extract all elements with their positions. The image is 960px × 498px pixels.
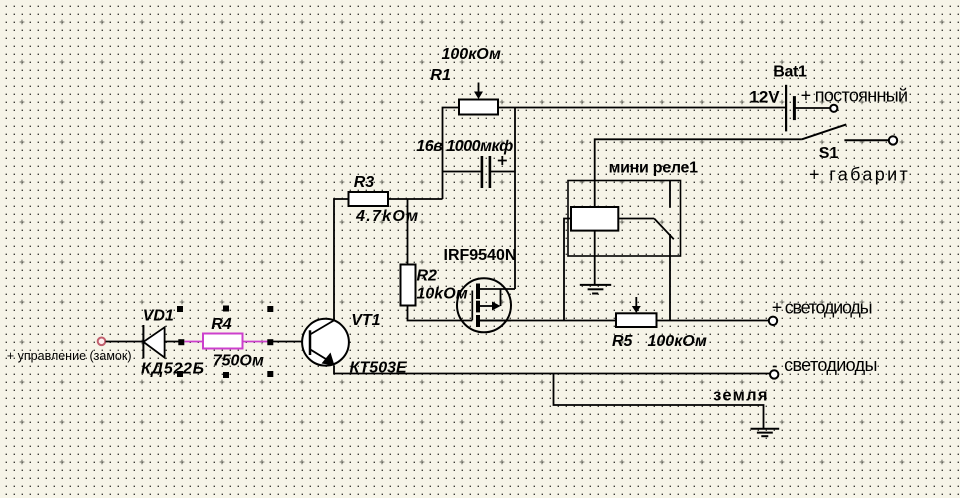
wire R2 bottom to mosfet gate <box>408 306 473 321</box>
wire base from R4 to VT1 <box>273 341 303 343</box>
wire drain vertical from rail to mosfet <box>514 108 516 290</box>
wire diode to handle <box>165 341 181 343</box>
svg-text:+ управление (замок): + управление (замок) <box>7 349 132 363</box>
svg-text:12V: 12V <box>749 88 780 107</box>
wire ground branch <box>554 374 764 429</box>
svg-text:+ светодиоды: + светодиоды <box>772 297 873 317</box>
minus dash <box>773 366 777 368</box>
svg-text:VT1: VT1 <box>351 312 380 329</box>
svg-text:16в 1000мкф: 16в 1000мкф <box>416 138 513 155</box>
resistor R2 <box>401 265 416 306</box>
relay switch contact <box>618 181 674 321</box>
wire terminal to diode <box>106 341 144 343</box>
transistor VT1 <box>302 319 349 366</box>
svg-text:100кОм: 100кОм <box>442 46 501 63</box>
resistor R1 <box>459 83 498 115</box>
terminal plus LEDs <box>769 317 777 325</box>
wire coil left down to source wire <box>564 219 571 321</box>
terminal input control <box>98 338 106 346</box>
svg-text:Bat1: Bat1 <box>773 64 807 81</box>
diode VD1 <box>143 325 164 359</box>
ground earth <box>751 429 780 436</box>
ground relay <box>580 285 611 294</box>
resistor R5 <box>616 297 657 327</box>
switch S1 <box>802 124 889 140</box>
svg-text:+ габарит: + габарит <box>809 165 908 185</box>
relay box <box>568 181 681 257</box>
terminal S1 <box>889 136 897 144</box>
svg-text:VD1: VD1 <box>143 308 174 325</box>
svg-text:R5: R5 <box>612 333 634 350</box>
svg-text:4.7kОм: 4.7kОм <box>355 208 418 225</box>
svg-text:мини реле1: мини реле1 <box>609 159 698 176</box>
svg-text:R2: R2 <box>417 268 438 285</box>
terminal minus LEDs <box>770 370 778 378</box>
wire emitter down and to terminal <box>334 366 770 374</box>
wire R3 to R2 vertical <box>407 199 409 265</box>
wire coil bottom to ground <box>594 231 596 284</box>
svg-text:750Ом: 750Ом <box>213 353 264 370</box>
wire capacitor right to drain vertical <box>491 171 515 173</box>
selection handles <box>177 306 273 379</box>
svg-text:R4: R4 <box>211 316 232 333</box>
wire top rail from R1 to battery <box>498 107 786 109</box>
mosfet U1 IRF9540N <box>457 278 515 332</box>
relay coil <box>571 207 618 231</box>
resistor R4 selected magenta <box>185 334 268 349</box>
svg-text:R3: R3 <box>354 174 375 191</box>
wire R1 left to junction <box>443 108 460 200</box>
svg-text:IRF9540N: IRF9540N <box>444 247 517 264</box>
resistor R3 <box>349 192 389 206</box>
svg-text:100кОм: 100кОм <box>648 333 707 350</box>
svg-text:светодиоды: светодиоды <box>784 355 877 375</box>
svg-text:КД522Б: КД522Б <box>141 361 204 378</box>
wire coil top to S1 run <box>595 139 802 207</box>
capacitor C1 plates <box>482 156 507 188</box>
wire mosfet source to R5 and terminal <box>480 320 770 322</box>
wire capacitor left branch <box>443 171 481 173</box>
svg-text:R1: R1 <box>430 67 451 84</box>
svg-text:КТ503Е: КТ503Е <box>350 359 409 376</box>
wire R3 right rail <box>388 198 443 200</box>
wire R3 left to collector vertical <box>334 199 349 320</box>
svg-text:+ постоянный: + постоянный <box>801 86 909 106</box>
svg-text:S1: S1 <box>819 145 839 162</box>
terminal battery <box>830 105 837 112</box>
battery Bat1 <box>786 85 830 132</box>
